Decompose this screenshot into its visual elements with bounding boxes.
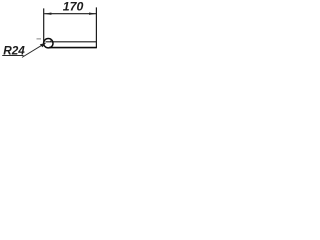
eye curl end tick	[50, 40, 51, 42]
rod bottom line	[49, 47, 97, 49]
centerline dash left of eye	[37, 38, 42, 40]
eye outer circle	[44, 39, 53, 48]
rod top line	[46, 41, 97, 43]
leader line	[22, 43, 45, 57]
leader arrowhead	[40, 43, 46, 48]
leader shelf under R24	[2, 55, 23, 57]
right extension line / right edge of rod	[95, 7, 97, 48]
dimension line 170	[44, 13, 96, 15]
background	[0, 0, 101, 66]
right dimension arrowhead	[89, 13, 96, 15]
svg-text:170: 170	[63, 0, 84, 14]
left dimension arrowhead	[44, 13, 51, 15]
left extension line	[43, 8, 45, 41]
